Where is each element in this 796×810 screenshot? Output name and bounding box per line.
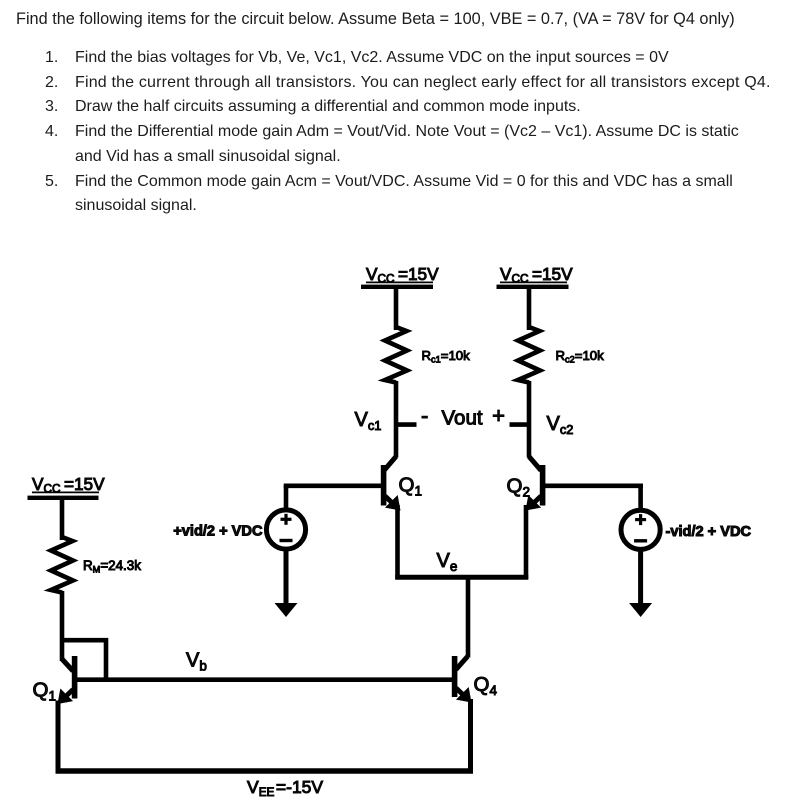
ground (left source) xyxy=(275,603,298,617)
wire Q1 emitter to Ve rail xyxy=(395,505,400,579)
voltage source +vid/2 + VDC xyxy=(173,486,382,549)
svg-text:Rc2=10k: Rc2=10k xyxy=(556,348,605,365)
node VCC rail 2 (right collector branch supply) xyxy=(497,264,574,289)
wire VCC1 to Rc1 xyxy=(394,288,399,330)
svg-text:+: + xyxy=(492,403,505,428)
list item 5 xyxy=(45,174,58,190)
transistor Q1 (diff pair left) xyxy=(384,457,407,517)
wire Q2 base to right source xyxy=(545,483,643,488)
wire right source to ground xyxy=(638,550,643,605)
node Vc1 (output tick) xyxy=(394,422,417,427)
svg-text:-: - xyxy=(421,403,428,428)
list item 4 xyxy=(45,124,58,140)
wire Rc1 to Q1 collector xyxy=(394,381,399,458)
list item 3 xyxy=(45,99,58,115)
label - Vout + xyxy=(421,403,505,430)
wire left source to ground xyxy=(284,550,289,606)
svg-text:Vc1: Vc1 xyxy=(355,409,382,433)
resistor RM xyxy=(51,537,73,593)
svg-text:Vc2: Vc2 xyxy=(547,413,574,437)
list item 2 xyxy=(45,75,58,91)
node Vc2 (output tick) xyxy=(510,422,532,427)
wire Rc2 to Q2 collector xyxy=(527,381,532,458)
svg-text:+vid/2 + VDC: +vid/2 + VDC xyxy=(173,524,263,540)
svg-text:Q1: Q1 xyxy=(33,679,56,704)
wire RM to Q1 mirror collector xyxy=(60,591,65,661)
svg-text:Vb: Vb xyxy=(186,650,207,674)
transistor Q2 (diff pair right) xyxy=(519,457,542,517)
wire VCC3 to RM xyxy=(60,499,65,540)
ground (right source) xyxy=(629,603,652,617)
node VCC rail 3 (bias branch supply) xyxy=(28,474,106,500)
wire Q2 emitter to Ve rail xyxy=(524,505,529,579)
svg-text:-vid/2 + VDC: -vid/2 + VDC xyxy=(666,524,752,540)
resistor Rc2 xyxy=(518,327,540,383)
wire Q4 emitter to VEE rail xyxy=(468,699,473,774)
node VCC rail 1 (left collector branch supply) xyxy=(361,264,439,289)
svg-text:Q2: Q2 xyxy=(507,475,530,500)
svg-text:Rc1=10k: Rc1=10k xyxy=(422,348,471,365)
transistor Q4 (current mirror output) xyxy=(455,656,478,709)
svg-text:Q4: Q4 xyxy=(474,673,498,698)
svg-text:Vout: Vout xyxy=(442,407,483,430)
wire Ve rail to Q4 collector xyxy=(466,575,471,658)
svg-text:VEE =-15V: VEE =-15V xyxy=(247,777,323,799)
node VEE rail xyxy=(56,768,474,774)
svg-text:Ve: Ve xyxy=(437,550,458,574)
node Ve (emitter rail) xyxy=(395,575,528,580)
problem statement heading xyxy=(16,11,735,27)
wire diode connection (collector to base loop) xyxy=(62,640,106,680)
resistor Rc1 xyxy=(385,327,407,383)
voltage source -vid/2 + VDC xyxy=(621,486,752,550)
wire Q1 mirror emitter to VEE rail xyxy=(56,701,61,774)
node Vb (base rail) xyxy=(75,677,453,682)
svg-text:Q1: Q1 xyxy=(399,474,422,499)
transistor Q1 (mirror reference, diode connected) xyxy=(51,656,74,710)
list item 1 xyxy=(45,50,58,66)
wire VCC2 to Rc2 xyxy=(527,288,532,330)
svg-text:RM=24.3k: RM=24.3k xyxy=(83,558,141,575)
